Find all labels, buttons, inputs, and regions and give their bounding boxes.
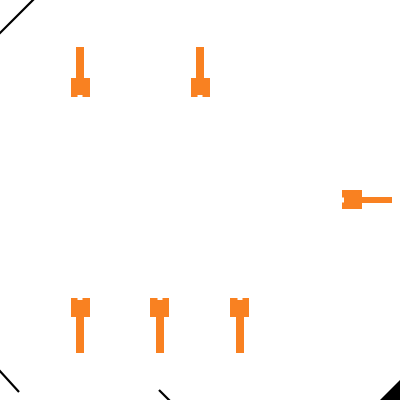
- pin 1 (top-left, upward): [71, 47, 90, 97]
- pin 2 (top-middle, upward): [191, 47, 210, 97]
- pin 4 (bottom-middle, downward): [150, 298, 169, 353]
- pin 6 (right, rightward): [342, 190, 392, 209]
- body outline arc segment, top-left corner: [0, 0, 34, 34]
- body outline tick, bottom-center: [159, 390, 170, 400]
- body outline corner fill, bottom-right: [379, 379, 400, 400]
- pin 5 (bottom-right, downward): [230, 298, 249, 353]
- body outline arc segment, bottom-left corner: [0, 370, 19, 392]
- pin 3 (bottom-left, downward): [71, 298, 90, 353]
